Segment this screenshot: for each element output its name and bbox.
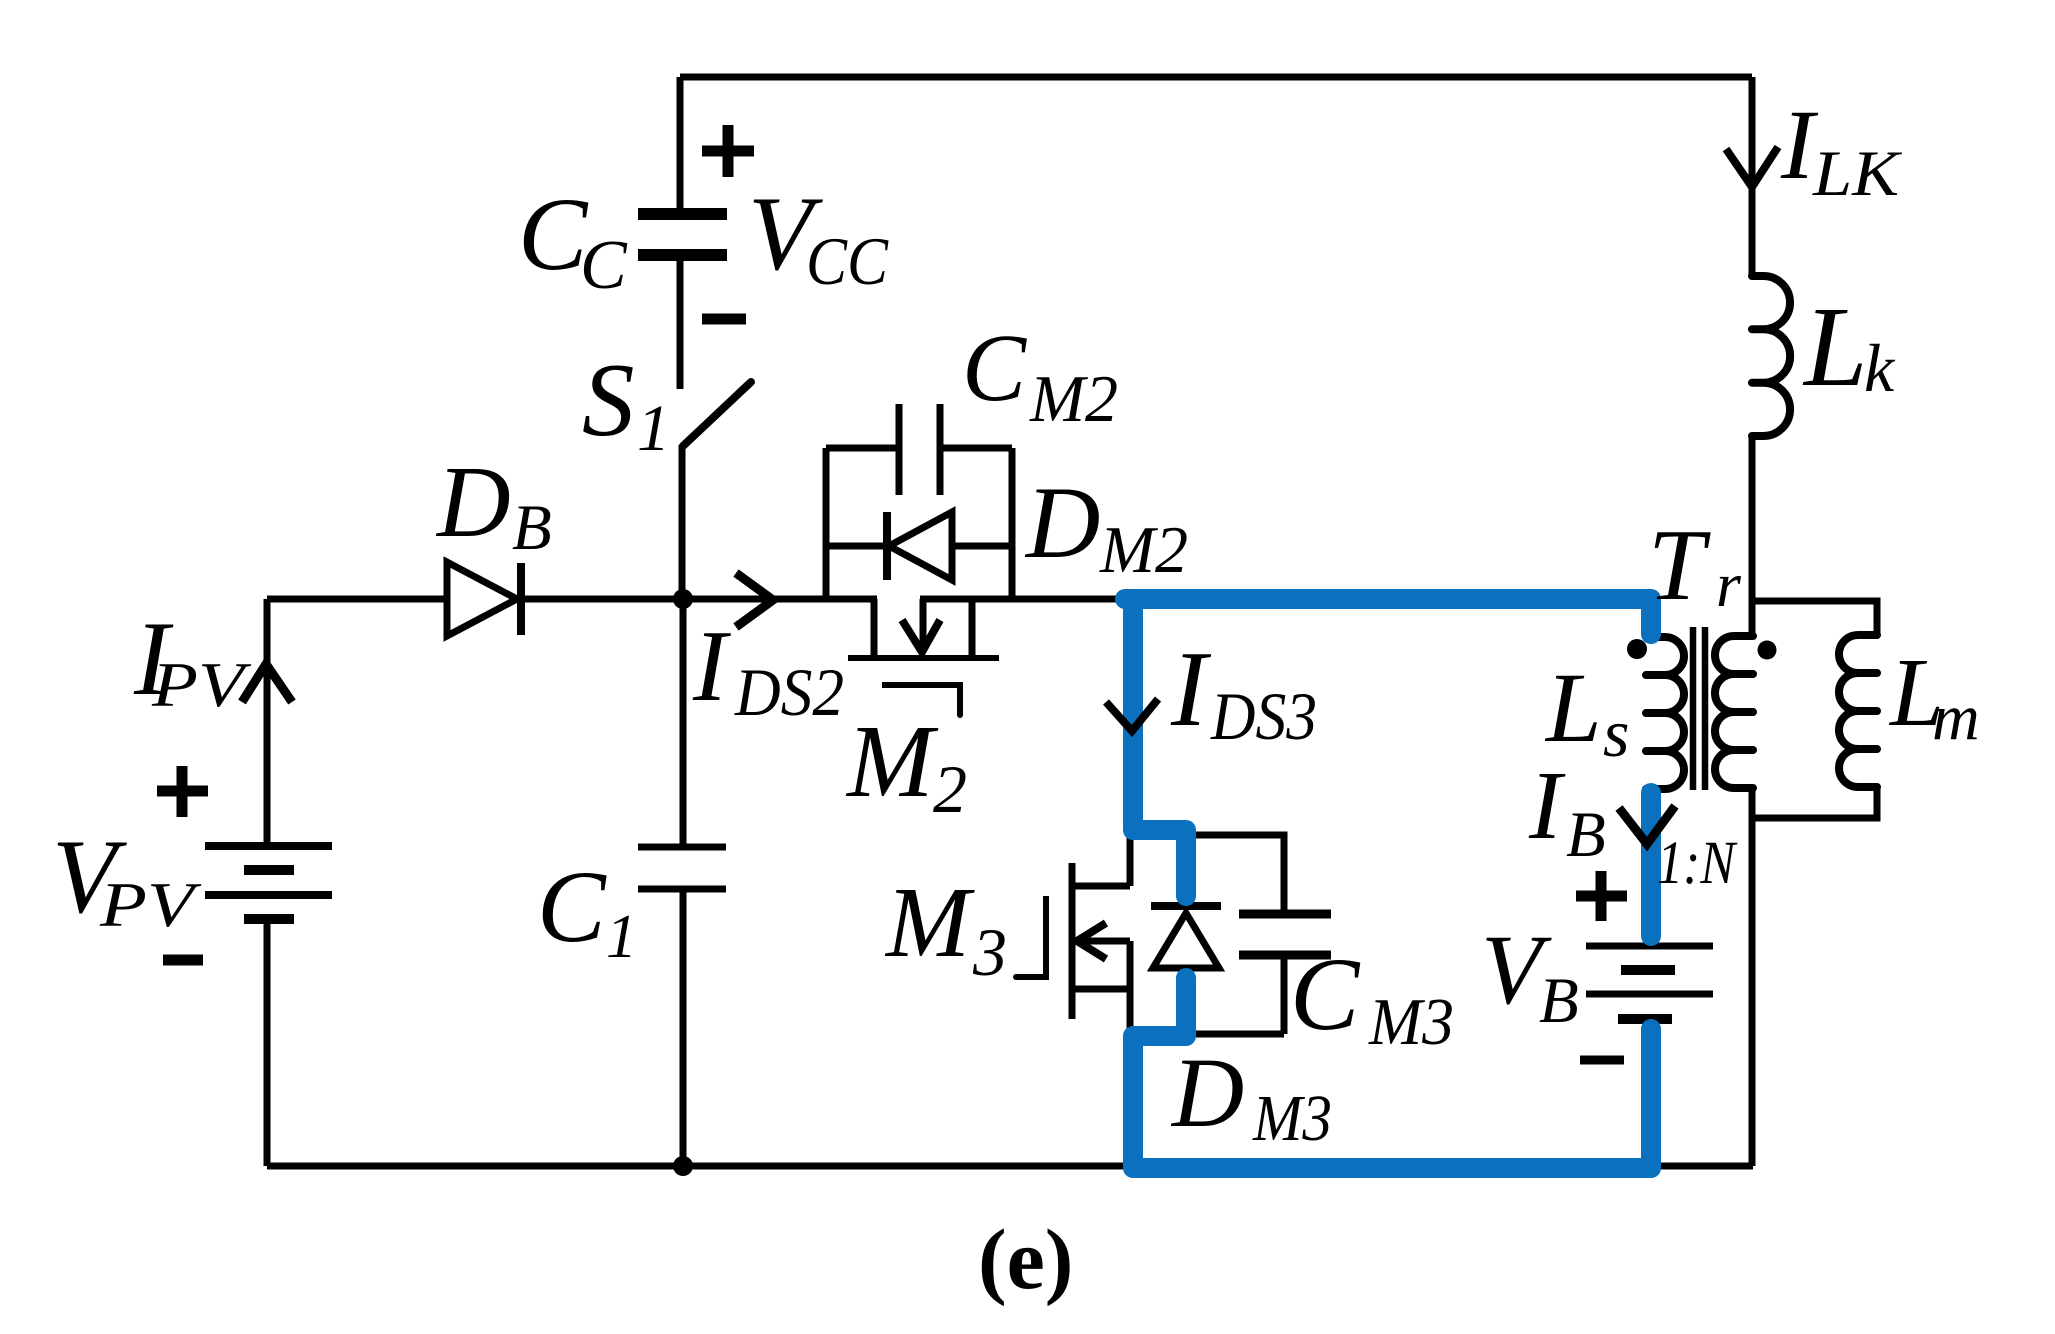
label plus V_B [1576,871,1627,921]
svg-text:s: s [1603,695,1629,771]
inductor L_k [1752,276,1790,436]
svg-text:M: M [884,866,975,978]
wire: right branch below transformer [1749,788,1756,1166]
arrow I_B [1619,806,1675,844]
node polarity dot right [1758,641,1777,660]
wire: PV branch upper [264,599,271,846]
transformer T_r core [1693,627,1705,790]
wire: C_C top lead [677,77,684,208]
svg-text:C: C [962,314,1027,421]
arrow I_PV [242,664,292,702]
transistor M3 [1016,836,1130,1036]
svg-text:2: 2 [933,751,967,827]
diode D_M2 [826,512,1012,580]
svg-text:I: I [1170,630,1212,749]
inductor L_s secondary winding [1646,637,1684,789]
svg-text:L: L [1802,283,1867,410]
wire: blue highlighted current loop [1125,599,1651,1168]
svg-text:C: C [1290,937,1361,1052]
diode D_B [447,562,521,636]
svg-text:3: 3 [972,914,1007,990]
svg-text:B: B [1566,799,1606,871]
inductor L_m branch top [1752,601,1877,636]
svg-text:D: D [1170,1037,1244,1148]
transistor M2 [848,599,999,715]
svg-text:M3: M3 [1252,1082,1332,1155]
wire: bottom rail [267,1163,1753,1170]
svg-text:DS2: DS2 [734,654,844,730]
svg-text:C: C [580,227,628,304]
svg-text:C: C [518,177,589,292]
node junction dot bottom [673,1156,693,1176]
svg-text:M: M [845,704,939,819]
svg-text:B: B [512,492,552,564]
svg-text:M2: M2 [1029,362,1118,436]
svg-text:LK: LK [1812,138,1903,210]
capacitor C_M3 [1192,835,1331,1034]
wire: C_C to switch [677,261,684,389]
svg-text:B: B [1539,965,1579,1037]
svg-text:M2: M2 [1099,513,1188,587]
svg-text:I: I [692,610,731,723]
svg-text:k: k [1864,330,1896,406]
wire: M2 source to blue node [920,596,1128,603]
svg-text:L: L [1544,652,1602,763]
svg-text:1:N: 1:N [1657,830,1738,897]
svg-text:1: 1 [637,392,670,465]
label plus V_CC [702,125,754,177]
diode D_M3 [1151,906,1221,968]
arrow I_DS3 [1106,699,1158,731]
svg-text:m: m [1932,681,1980,754]
label minus V_B [1580,1056,1624,1065]
svg-text:D: D [435,446,511,559]
switch S1 blade [683,382,751,446]
wire: D_B to M2 drain [521,596,877,603]
battery V_B [1586,946,1713,1019]
capacitor C_1 [638,599,726,1166]
svg-text:(e): (e) [978,1211,1073,1307]
svg-text:I: I [1528,752,1566,860]
battery V_PV [205,846,332,919]
arrow I_LK [1726,147,1778,187]
wire: L_k to transformer [1749,436,1756,636]
label minus V_PV [163,955,203,966]
wire: top rail [680,74,1752,81]
node polarity dot left [1627,639,1647,659]
svg-text:CC: CC [806,223,889,299]
svg-text:r: r [1716,549,1742,620]
svg-text:D: D [1024,466,1100,580]
wire: switch to junction [679,445,686,599]
transformer T_r primary winding [1715,636,1753,788]
svg-text:M3: M3 [1368,985,1454,1059]
svg-text:DS3: DS3 [1210,678,1317,754]
wire: main rail left [267,596,447,603]
wire: right drop to L_k [1749,77,1756,276]
wire: PV branch lower [264,919,271,1166]
label plus V_PV [157,766,208,817]
inductor L_m branch bottom [1752,786,1877,818]
arrow I_DS2 [736,573,773,627]
svg-text:S: S [582,341,635,458]
capacitor C_M2 snubber box [826,404,1012,599]
svg-text:PV: PV [151,649,252,720]
svg-text:T: T [1648,509,1711,622]
label minus V_CC [702,314,746,325]
svg-text:C: C [537,850,607,964]
svg-text:PV: PV [99,869,203,940]
capacitor C_C [638,214,727,255]
node junction dot A [673,589,693,609]
inductor L_m [1839,635,1877,787]
svg-text:1: 1 [606,903,637,971]
